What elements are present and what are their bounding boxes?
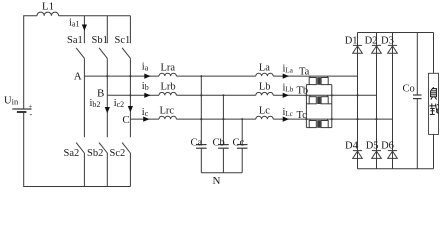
junction row A col c: [129, 75, 131, 77]
svg-text:Ta: Ta: [299, 67, 310, 78]
load resistor box: [429, 33, 439, 169]
diode D3: [388, 33, 398, 151]
junction secondary bus row C: [331, 118, 333, 120]
svg-text:D2: D2: [365, 36, 378, 47]
current arrow ib: [144, 93, 150, 98]
wire tap phase A down: [200, 76, 202, 145]
label load character zai: [429, 103, 438, 114]
svg-text:D4: D4: [345, 140, 359, 151]
svg-text:iLb: iLb: [283, 83, 294, 94]
svg-text:A: A: [74, 71, 82, 83]
wire row C left: [130, 118, 159, 120]
svg-text:ia: ia: [142, 62, 149, 73]
diode D5: [372, 151, 382, 169]
wire top rail: [358, 32, 434, 34]
wire left lower: [24, 112, 131, 187]
switch Sa2: [76, 76, 84, 186]
svg-text:D6: D6: [381, 140, 394, 151]
svg-text:Uin: Uin: [4, 96, 19, 107]
svg-text:Tc: Tc: [297, 110, 308, 121]
svg-text:La: La: [259, 63, 270, 74]
capacitor Ca: [196, 145, 207, 173]
svg-text:D1: D1: [345, 36, 358, 47]
capacitor Cc: [237, 145, 248, 173]
svg-text:Sb2: Sb2: [87, 148, 103, 159]
svg-text:Sa1: Sa1: [67, 35, 83, 46]
current arrow ia: [144, 74, 150, 79]
junction primary bus row C: [305, 118, 307, 120]
switch Sa1: [76, 16, 84, 76]
svg-text:Lrc: Lrc: [160, 106, 175, 117]
svg-text:ia1: ia1: [69, 18, 79, 29]
svg-text:Cb: Cb: [213, 138, 225, 149]
wire row B left: [107, 94, 159, 96]
current arrow ib2: [105, 107, 110, 113]
svg-text:Ca: Ca: [191, 138, 203, 149]
svg-text:L1: L1: [42, 1, 54, 13]
label load character fu: [431, 87, 437, 99]
switch Sc1: [122, 16, 130, 119]
junction tap A row A: [200, 75, 202, 77]
wire node N rail: [201, 172, 242, 174]
wire row A right: [273, 75, 357, 77]
junction secondary bus row B: [331, 94, 333, 96]
wire top left loop: [24, 16, 37, 109]
svg-text:Lra: Lra: [161, 62, 176, 73]
wire bottom rail: [358, 168, 434, 170]
current arrow iLc: [283, 117, 289, 122]
wire tap phase B down: [222, 95, 224, 144]
svg-text:Lrb: Lrb: [161, 81, 176, 92]
wire row B right: [273, 94, 376, 96]
svg-text:C: C: [122, 114, 129, 126]
svg-text:Tb: Tb: [297, 86, 309, 97]
inductor Lb: [256, 92, 273, 95]
svg-text:iLa: iLa: [283, 64, 294, 75]
svg-text:Lc: Lc: [259, 106, 270, 117]
source Uin battery short plate: [17, 111, 27, 113]
diode D2: [372, 33, 382, 151]
capacitor Co: [413, 33, 422, 169]
junction tap C row C: [241, 118, 243, 120]
junction row B col c: [129, 94, 131, 96]
switch Sb1: [99, 16, 107, 96]
transformer Ta: [306, 76, 331, 85]
inductor Lra: [159, 73, 176, 76]
wire row A mid: [176, 75, 255, 77]
svg-text:Sc2: Sc2: [110, 148, 126, 159]
wire tap phase C down: [241, 119, 243, 145]
inductor Lrb: [159, 92, 176, 95]
svg-text:Cc: Cc: [233, 138, 245, 149]
wire row C mid: [176, 118, 255, 120]
inductor La: [256, 73, 273, 76]
wire primary star bus: [305, 85, 307, 128]
diode D4: [353, 151, 363, 169]
junction tap A row B: [200, 94, 202, 96]
current arrow ia1: [82, 25, 87, 31]
junction tap A row C: [200, 118, 202, 120]
junction leg2 row C: [375, 118, 377, 120]
wire secondary star bus: [331, 85, 333, 128]
svg-text:N: N: [213, 175, 221, 187]
diode D6: [388, 151, 398, 169]
junction primary bus row B: [305, 94, 307, 96]
svg-text:ic2: ic2: [114, 98, 124, 109]
svg-text:iLc: iLc: [283, 107, 293, 118]
junction leg1 row C: [356, 118, 358, 120]
current arrow iLb: [283, 93, 289, 98]
diode D1: [353, 33, 363, 151]
svg-text:ib2: ib2: [90, 98, 101, 109]
switch Sb2: [99, 95, 107, 186]
svg-text:Co: Co: [403, 83, 415, 94]
junction row A col b: [106, 75, 108, 77]
svg-text:Sb1: Sb1: [92, 35, 108, 46]
svg-text:Sc1: Sc1: [115, 35, 131, 46]
svg-text:Sa2: Sa2: [64, 148, 80, 159]
source Uin battery long plate: [12, 108, 31, 110]
svg-text:-: -: [30, 110, 33, 119]
svg-text:Lb: Lb: [259, 81, 271, 92]
svg-text:B: B: [97, 87, 104, 99]
wire row B mid: [176, 94, 255, 96]
current arrow ic: [143, 117, 149, 122]
capacitor Cb: [218, 145, 229, 173]
transformer Tb: [306, 95, 331, 104]
svg-text:D5: D5: [366, 140, 379, 151]
junction tap B row B: [222, 94, 224, 96]
current arrow iLa: [283, 74, 289, 79]
wire top to columns: [59, 15, 131, 17]
svg-text:ic: ic: [142, 107, 149, 118]
inductor Lc: [256, 116, 273, 119]
inductor Lrc: [159, 116, 176, 119]
junction tap B row C: [222, 118, 224, 120]
transformer Tc: [306, 119, 331, 128]
inductor L1: [37, 12, 59, 16]
current arrow ic2: [128, 106, 133, 112]
svg-text:D3: D3: [381, 36, 394, 47]
junction leg1 row B: [356, 94, 358, 96]
svg-text:ib: ib: [142, 81, 149, 92]
wire row C right: [273, 118, 392, 120]
switch Sc2: [122, 119, 130, 186]
wire row A left: [84, 75, 159, 77]
